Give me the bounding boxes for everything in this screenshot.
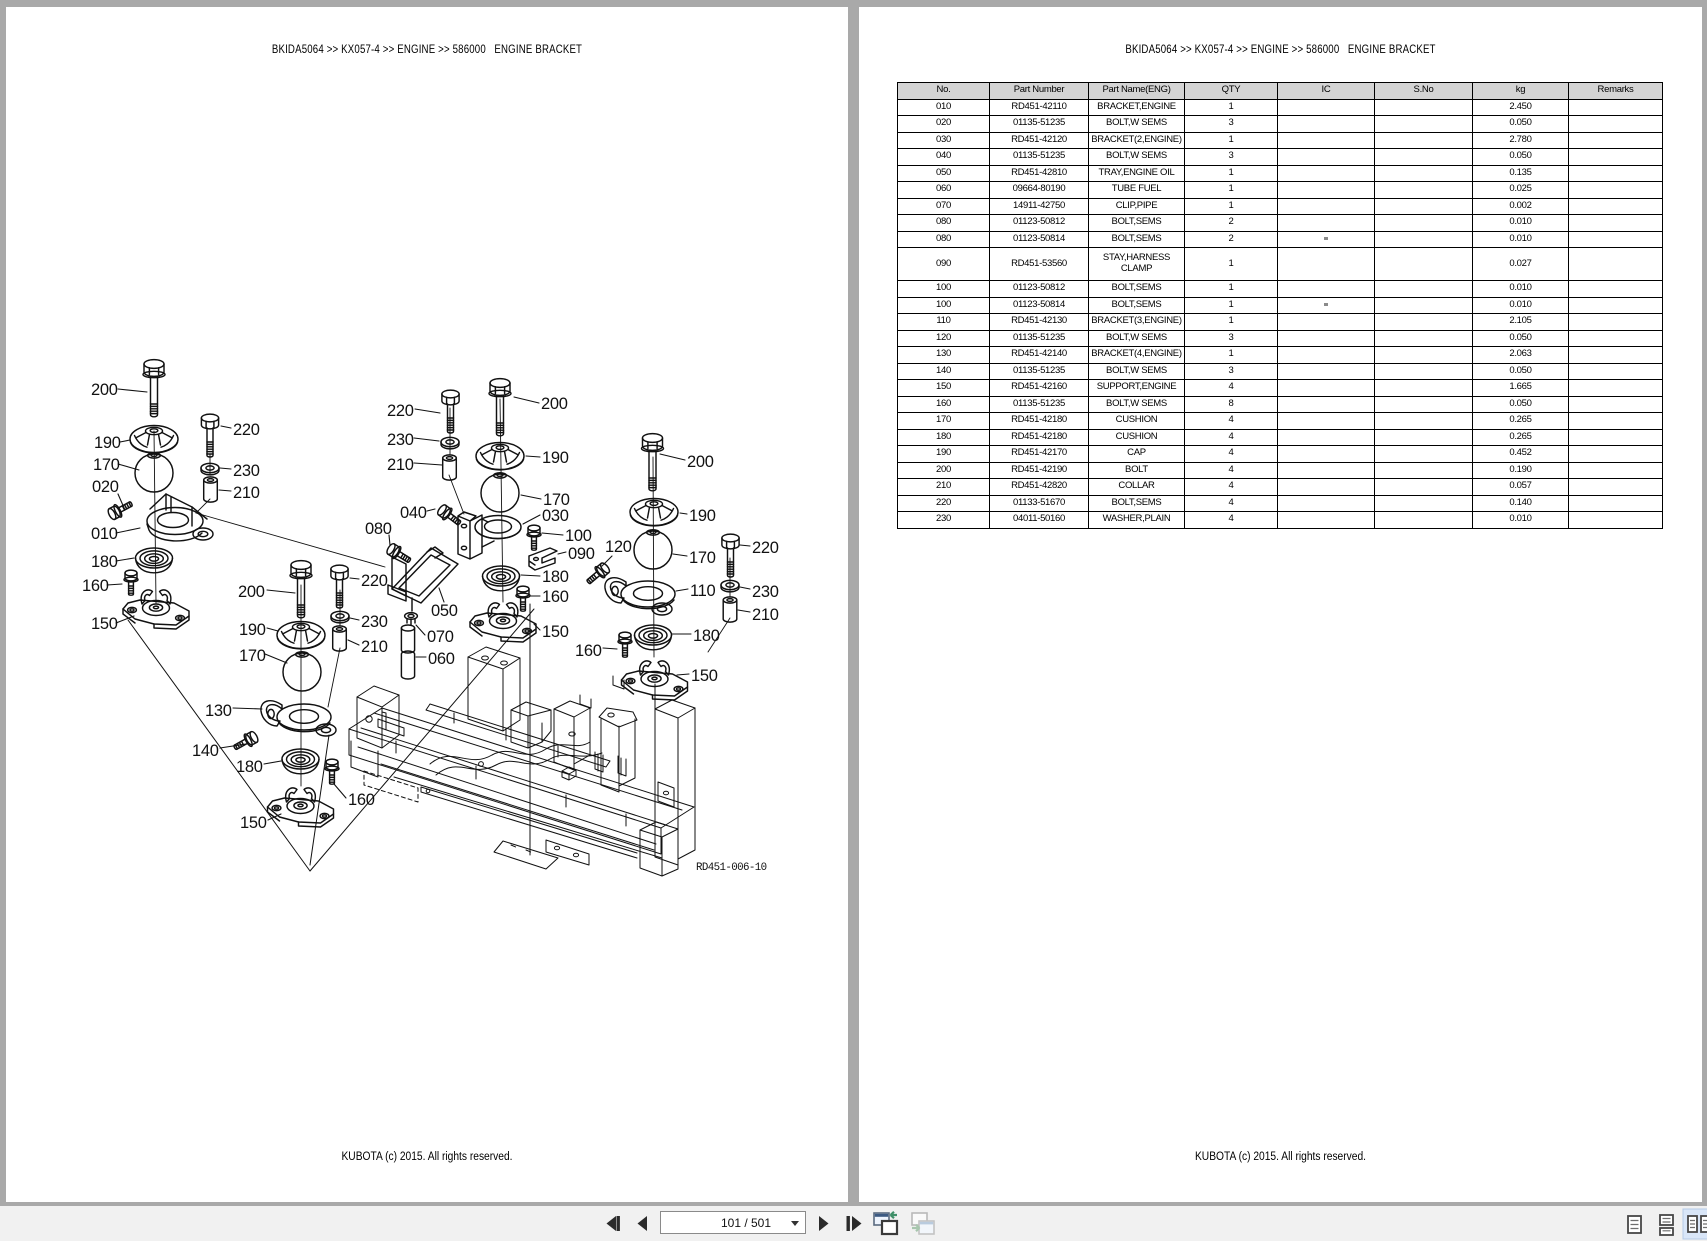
tray 050 RD451-42810	[388, 547, 458, 611]
svg-text:220: 220	[233, 421, 260, 439]
svg-text:210: 210	[361, 638, 388, 656]
svg-text:160: 160	[348, 791, 375, 809]
tray mounting outline (dashed)	[364, 771, 418, 802]
collar 210 (C)	[723, 597, 737, 622]
cap 190 (D)	[476, 443, 524, 470]
svg-text:150: 150	[91, 615, 118, 633]
svg-text:170: 170	[689, 549, 716, 567]
frame center post	[468, 647, 520, 731]
svg-text:200: 200	[687, 453, 714, 471]
frame step bracket	[511, 702, 551, 748]
cushion 180 (D)	[483, 566, 520, 591]
svg-text:190: 190	[689, 507, 716, 525]
svg-text:160: 160	[542, 588, 569, 606]
bolt 160 (B)	[325, 759, 339, 784]
svg-text:140: 140	[192, 742, 219, 760]
bolt 120 01135-51235	[583, 561, 611, 588]
svg-text:210: 210	[387, 456, 414, 474]
svg-text:030: 030	[542, 507, 569, 525]
cushion 170 (D)	[481, 473, 519, 512]
cushion 180 (B)	[282, 749, 319, 774]
bolt 220 (B)	[331, 565, 348, 608]
frame right post	[599, 708, 637, 792]
cushion 170 (A) RD451-42180	[135, 453, 173, 492]
svg-text:180: 180	[236, 758, 263, 776]
bolt 200 (C)	[642, 434, 664, 491]
cushion 180 (C)	[635, 625, 672, 650]
bolt 200 (B)	[290, 561, 312, 618]
svg-text:210: 210	[752, 606, 779, 624]
svg-text:200: 200	[91, 381, 118, 399]
svg-text:220: 220	[387, 402, 414, 420]
svg-text:150: 150	[542, 623, 569, 641]
bolt 040 01135-51235	[435, 503, 463, 529]
svg-text:180: 180	[542, 568, 569, 586]
collar 210 (A) RD451-42820	[204, 477, 218, 502]
bolt 220 (C)	[722, 534, 739, 577]
bolt 220 (D)	[442, 390, 459, 433]
svg-text:RD451-006-10: RD451-006-10	[696, 862, 767, 874]
frame upper shelf	[426, 704, 610, 767]
svg-text:070: 070	[427, 628, 454, 646]
svg-text:040: 040	[400, 504, 427, 522]
svg-text:190: 190	[94, 434, 121, 452]
node A assembly axis	[154, 431, 156, 603]
svg-text:150: 150	[240, 814, 267, 832]
clip 070 14911-42750	[405, 613, 418, 620]
svg-text:110: 110	[690, 582, 716, 600]
svg-text:230: 230	[233, 462, 260, 480]
bolt 020 01135-51235	[106, 497, 135, 521]
frame small clips	[562, 676, 626, 780]
right page	[859, 7, 1702, 1202]
frame thin bar	[421, 787, 637, 858]
cushion 170 (B)	[283, 652, 321, 691]
node D assembly axis	[500, 399, 503, 602]
tube 060 09664-80190	[401, 625, 414, 679]
washer 230 (D)	[441, 437, 459, 449]
svg-text:150: 150	[691, 667, 718, 685]
bottom toolbar	[0, 1206, 1707, 1241]
bolt 160 (C)	[618, 632, 632, 657]
stay 090 RD451-53560	[529, 548, 557, 570]
svg-text:200: 200	[541, 395, 568, 413]
bolt 160 (D)	[516, 586, 530, 611]
bracket 130 RD451-42140	[261, 701, 336, 736]
svg-text:180: 180	[91, 553, 118, 571]
collar 210 (D)	[443, 455, 457, 480]
bolt 100 01123-50812	[527, 525, 541, 550]
cushion 170 (C)	[634, 530, 672, 569]
svg-text:230: 230	[752, 583, 779, 601]
wire leader-extension lines converging on frame	[128, 620, 310, 871]
frame left post bracket plate	[378, 712, 404, 736]
svg-text:210: 210	[233, 484, 260, 502]
svg-text:220: 220	[361, 572, 388, 590]
cushion 180 (A) RD451-42180	[136, 548, 173, 573]
cap 190 (A) RD451-42170	[130, 426, 178, 453]
svg-text:130: 130	[205, 702, 232, 720]
bolt 200 (D)	[489, 379, 511, 436]
bracket 010 RD451-42110	[147, 494, 213, 541]
bolt 140 01135-51235	[231, 729, 260, 753]
washer 230 (C)	[721, 580, 739, 592]
support 150 (B)	[268, 788, 334, 827]
support 150 (A) RD451-42160	[123, 590, 189, 629]
svg-text:050: 050	[431, 602, 458, 620]
svg-text:230: 230	[387, 431, 414, 449]
support 150 (C)	[622, 661, 688, 700]
svg-text:170: 170	[239, 647, 266, 665]
svg-text:020: 020	[92, 478, 119, 496]
cap 190 (B)	[277, 622, 325, 649]
bolt 220 (A) 01133-51670	[201, 414, 218, 457]
bolt 080 01123-50812	[385, 542, 414, 567]
svg-text:190: 190	[239, 621, 266, 639]
svg-text:160: 160	[575, 642, 602, 660]
svg-text:200: 200	[238, 583, 265, 601]
svg-text:160: 160	[82, 577, 109, 595]
prev view / next view icons	[870, 1206, 940, 1241]
frame lower plates	[494, 841, 558, 869]
bolt 200 (A) RD451-42190	[143, 360, 165, 417]
node C assembly axis	[653, 457, 654, 657]
svg-text:120: 120	[605, 538, 632, 556]
washer 230 (A) 04011-50160	[201, 463, 219, 475]
svg-text:090: 090	[568, 545, 595, 563]
bracket 030 RD451-42120	[458, 512, 521, 559]
bracket 110 RD451-42130	[605, 578, 675, 615]
frame bottom-center plate	[546, 840, 589, 865]
frame broken-edge curve	[430, 742, 590, 764]
svg-text:190: 190	[542, 449, 569, 467]
collar 210 (B)	[333, 626, 347, 651]
view mode icons	[1620, 1206, 1707, 1241]
frame mid-right post	[554, 701, 590, 770]
svg-text:220: 220	[752, 539, 779, 557]
left page	[6, 7, 848, 1202]
svg-text:080: 080	[365, 520, 392, 538]
svg-text:060: 060	[428, 650, 455, 668]
svg-text:100: 100	[565, 527, 592, 545]
frame left post	[351, 686, 399, 777]
frame right column	[655, 700, 695, 865]
frame bottom-right block	[640, 822, 678, 876]
bolt 160 (A) 01135-51235	[124, 570, 138, 595]
svg-text:180: 180	[693, 627, 720, 645]
node B assembly axis	[300, 585, 302, 786]
support 150 (D)	[470, 603, 536, 642]
cap 190 (C)	[630, 499, 678, 526]
svg-text:230: 230	[361, 613, 388, 631]
washer 230 (B)	[331, 611, 349, 623]
svg-text:010: 010	[91, 525, 118, 543]
bracket frame: main rail	[349, 708, 694, 858]
svg-text:170: 170	[93, 456, 120, 474]
